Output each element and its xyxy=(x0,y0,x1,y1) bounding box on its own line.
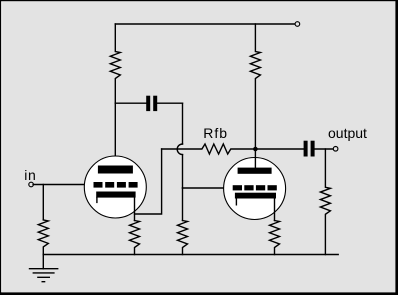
svg-text:Rfb: Rfb xyxy=(203,125,228,141)
terminal output xyxy=(333,147,338,152)
resistor Rfb (feedback) xyxy=(162,144,256,154)
wire input branch down xyxy=(42,185,44,220)
wire output net xyxy=(255,148,303,150)
svg-text:output: output xyxy=(328,125,367,141)
wire coupling to grid2 with hop over Rfb wire xyxy=(182,103,184,144)
terminal in xyxy=(29,182,34,187)
wire cathode tube2 down xyxy=(274,199,276,221)
wire bottom rail xyxy=(43,254,338,256)
wire down to grid-leak resistor xyxy=(182,188,184,221)
tube V2 (triode, right) xyxy=(224,158,286,220)
capacitor C2 (output) xyxy=(304,141,308,157)
resistor R4 (grid leak stage 2) xyxy=(178,221,188,255)
resistor R6 (cathode 1) xyxy=(130,221,140,255)
tube V1 (triode, left) xyxy=(84,156,146,218)
wire cathode tube1 down xyxy=(134,198,136,221)
resistor R1 (left plate load) xyxy=(110,24,120,103)
svg-text:in: in xyxy=(24,167,36,183)
resistor R3 (input grid leak) xyxy=(38,220,48,255)
wire input to grid1 xyxy=(33,184,93,186)
wire anode tube2 xyxy=(254,149,256,168)
resistor R2 (right plate load) xyxy=(250,24,260,149)
resistor R5 (output load) xyxy=(320,149,330,255)
wire grid2 xyxy=(183,187,235,189)
wire feedback riser xyxy=(135,149,162,214)
resistor R7 (cathode 2) xyxy=(270,221,280,255)
wire anode branch tube1 xyxy=(114,103,116,165)
node junction dot (anode 2 / output) xyxy=(253,147,258,152)
ground xyxy=(42,255,44,269)
terminal top-right xyxy=(295,22,300,27)
wire top supply rail xyxy=(115,23,295,25)
capacitor C1 (coupling) xyxy=(115,102,146,104)
